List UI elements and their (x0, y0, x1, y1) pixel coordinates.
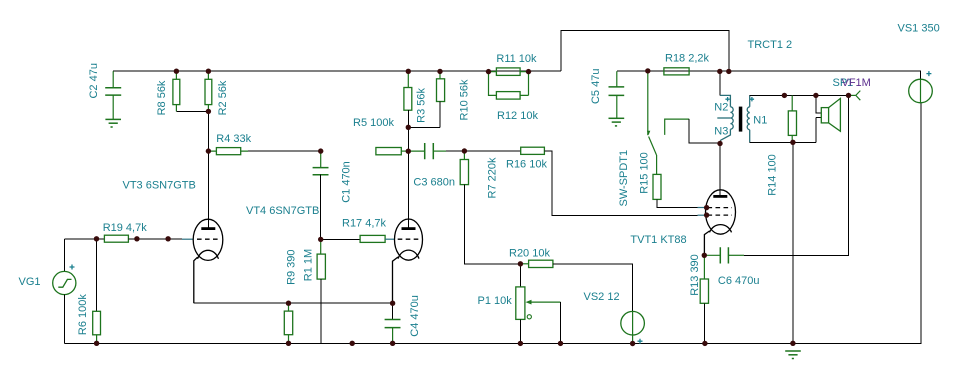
plus marks (70, 71, 932, 344)
svg-text:R9 390: R9 390 (286, 249, 298, 284)
resistor R9 (288, 303, 290, 311)
svg-text:VT3 6SN7GTB: VT3 6SN7GTB (123, 180, 196, 192)
svg-text:R12 10k: R12 10k (497, 110, 538, 122)
svg-text:R6 100k: R6 100k (77, 294, 89, 335)
source VS1 (909, 79, 933, 103)
svg-text:C3 680n: C3 680n (413, 177, 455, 189)
resistor R19 (104, 235, 128, 242)
switch SW-SPDT1 (647, 71, 689, 155)
svg-text:N1: N1 (753, 115, 767, 127)
resistor R2 (207, 71, 209, 111)
svg-text:R3 56k: R3 56k (416, 87, 428, 122)
capacitor C2 (105, 88, 121, 120)
svg-text:R4 33k: R4 33k (216, 133, 251, 145)
svg-text:SW-SPDT1: SW-SPDT1 (618, 150, 630, 207)
source VS2 (621, 311, 645, 335)
resistor R17 (360, 235, 385, 242)
op tube VT4 (393, 219, 423, 303)
source VG1 (53, 271, 76, 294)
svg-text:C6 470u: C6 470u (718, 275, 760, 287)
wire top bus right section (617, 71, 921, 79)
wire R2 node down to R4 node (207, 111, 209, 151)
capacitor C6 (704, 254, 720, 256)
svg-text:P1 10k: P1 10k (478, 295, 513, 307)
resistor R8 (175, 71, 177, 111)
resistor R5 (376, 148, 401, 155)
wire N1 top line (750, 94, 849, 96)
wire VT3 cathode line (194, 302, 393, 304)
svg-text:R19 4,7k: R19 4,7k (103, 222, 148, 234)
svg-text:R13 390: R13 390 (689, 254, 701, 296)
capacitor C3 (408, 150, 424, 152)
svg-text:VS2 12: VS2 12 (584, 291, 620, 303)
resistor R18 (664, 68, 689, 75)
resistor R14 (791, 95, 793, 111)
svg-text:VG1: VG1 (19, 276, 41, 288)
svg-text:TVT1 KT88: TVT1 KT88 (630, 234, 686, 246)
resistor R4 (208, 150, 248, 152)
wire R8-R2 bottom join (176, 110, 208, 112)
resistor R16 (521, 147, 545, 154)
wire R14 node down to ground (792, 142, 794, 343)
ground below C5 (609, 118, 625, 126)
svg-text:TRCT1 2: TRCT1 2 (748, 39, 793, 51)
svg-text:R10 56k: R10 56k (459, 79, 471, 120)
capacitor C4 (392, 303, 394, 319)
svg-text:R8 56k: R8 56k (156, 80, 168, 115)
wire N1 bottom line (750, 141, 816, 143)
resistor R10 (439, 71, 441, 78)
svg-text:VS1 350: VS1 350 (898, 23, 940, 35)
wire C2 top lead (112, 71, 114, 88)
svg-text:R2 56k: R2 56k (217, 80, 229, 115)
resistor R15 (656, 155, 658, 174)
wire top bus left section (113, 70, 561, 72)
svg-text:R5 100k: R5 100k (353, 117, 394, 129)
resistor R20 (529, 260, 553, 267)
P1 wiper arrow (528, 301, 561, 303)
svg-text:C2 47u: C2 47u (88, 63, 100, 98)
svg-text:VT4 6SN7GTB: VT4 6SN7GTB (246, 205, 319, 217)
svg-text:C4 470u: C4 470u (409, 295, 421, 337)
wire R4 to C1 node (248, 150, 321, 152)
wire jumper over R11/R18 (561, 31, 729, 72)
power tube TVT1 KT88 (704, 190, 735, 256)
wire bottom bus (64, 103, 921, 343)
svg-text:R11 10k: R11 10k (496, 53, 537, 65)
resistor R12 parallel loop (489, 72, 529, 96)
capacitor C1 (320, 151, 322, 168)
ground main (785, 351, 801, 359)
svg-text:C1 470n: C1 470n (341, 161, 353, 203)
resistor R1 (320, 239, 322, 254)
wire VG1 top lead / R19 line (64, 239, 104, 272)
wire switch throw to N3 node (689, 119, 720, 143)
transformer TRCT1 (717, 95, 749, 142)
svg-text:N2: N2 (714, 102, 728, 114)
op tube VT3 (193, 219, 223, 303)
svg-text:R16 10k: R16 10k (506, 159, 547, 171)
wire N3 node down to KT88 anode (719, 140, 722, 195)
wire VT4 anode feed (407, 151, 409, 227)
probe VF1 (849, 91, 861, 101)
speaker SP1 leads (816, 95, 821, 142)
svg-text:R14 100: R14 100 (767, 154, 779, 196)
wire VT3 anode feed (207, 151, 209, 227)
svg-text:R7 220k: R7 220k (487, 157, 499, 198)
ground below C2 (105, 119, 121, 127)
resistor R7 (463, 151, 465, 160)
svg-text:VF1M: VF1M (842, 77, 871, 89)
wire R16 down to KT88 grid (544, 151, 697, 216)
wire VT4 grid line (321, 238, 360, 240)
svg-text:R20 10k: R20 10k (509, 248, 550, 260)
svg-text:R15 100: R15 100 (639, 152, 651, 194)
svg-text:C5 47u: C5 47u (590, 69, 602, 104)
potentiometer P1 (519, 264, 521, 287)
capacitor C5 (616, 71, 618, 87)
wire probe down to C6 (744, 95, 848, 255)
resistor R11 (489, 71, 529, 73)
transformer core (739, 107, 743, 132)
svg-text:N3: N3 (714, 126, 728, 138)
resistor R6 (96, 239, 98, 311)
resistor R3 (407, 71, 409, 87)
speaker SP1 (821, 98, 840, 131)
svg-text:R17 4,7k: R17 4,7k (342, 218, 387, 230)
resistor R13 (703, 255, 705, 279)
svg-text:R18 2,2k: R18 2,2k (665, 52, 710, 64)
wire C3 to R16 (464, 150, 520, 152)
transformer TRCT1 primary feed (719, 71, 721, 95)
svg-text:R1 1M: R1 1M (303, 249, 315, 281)
